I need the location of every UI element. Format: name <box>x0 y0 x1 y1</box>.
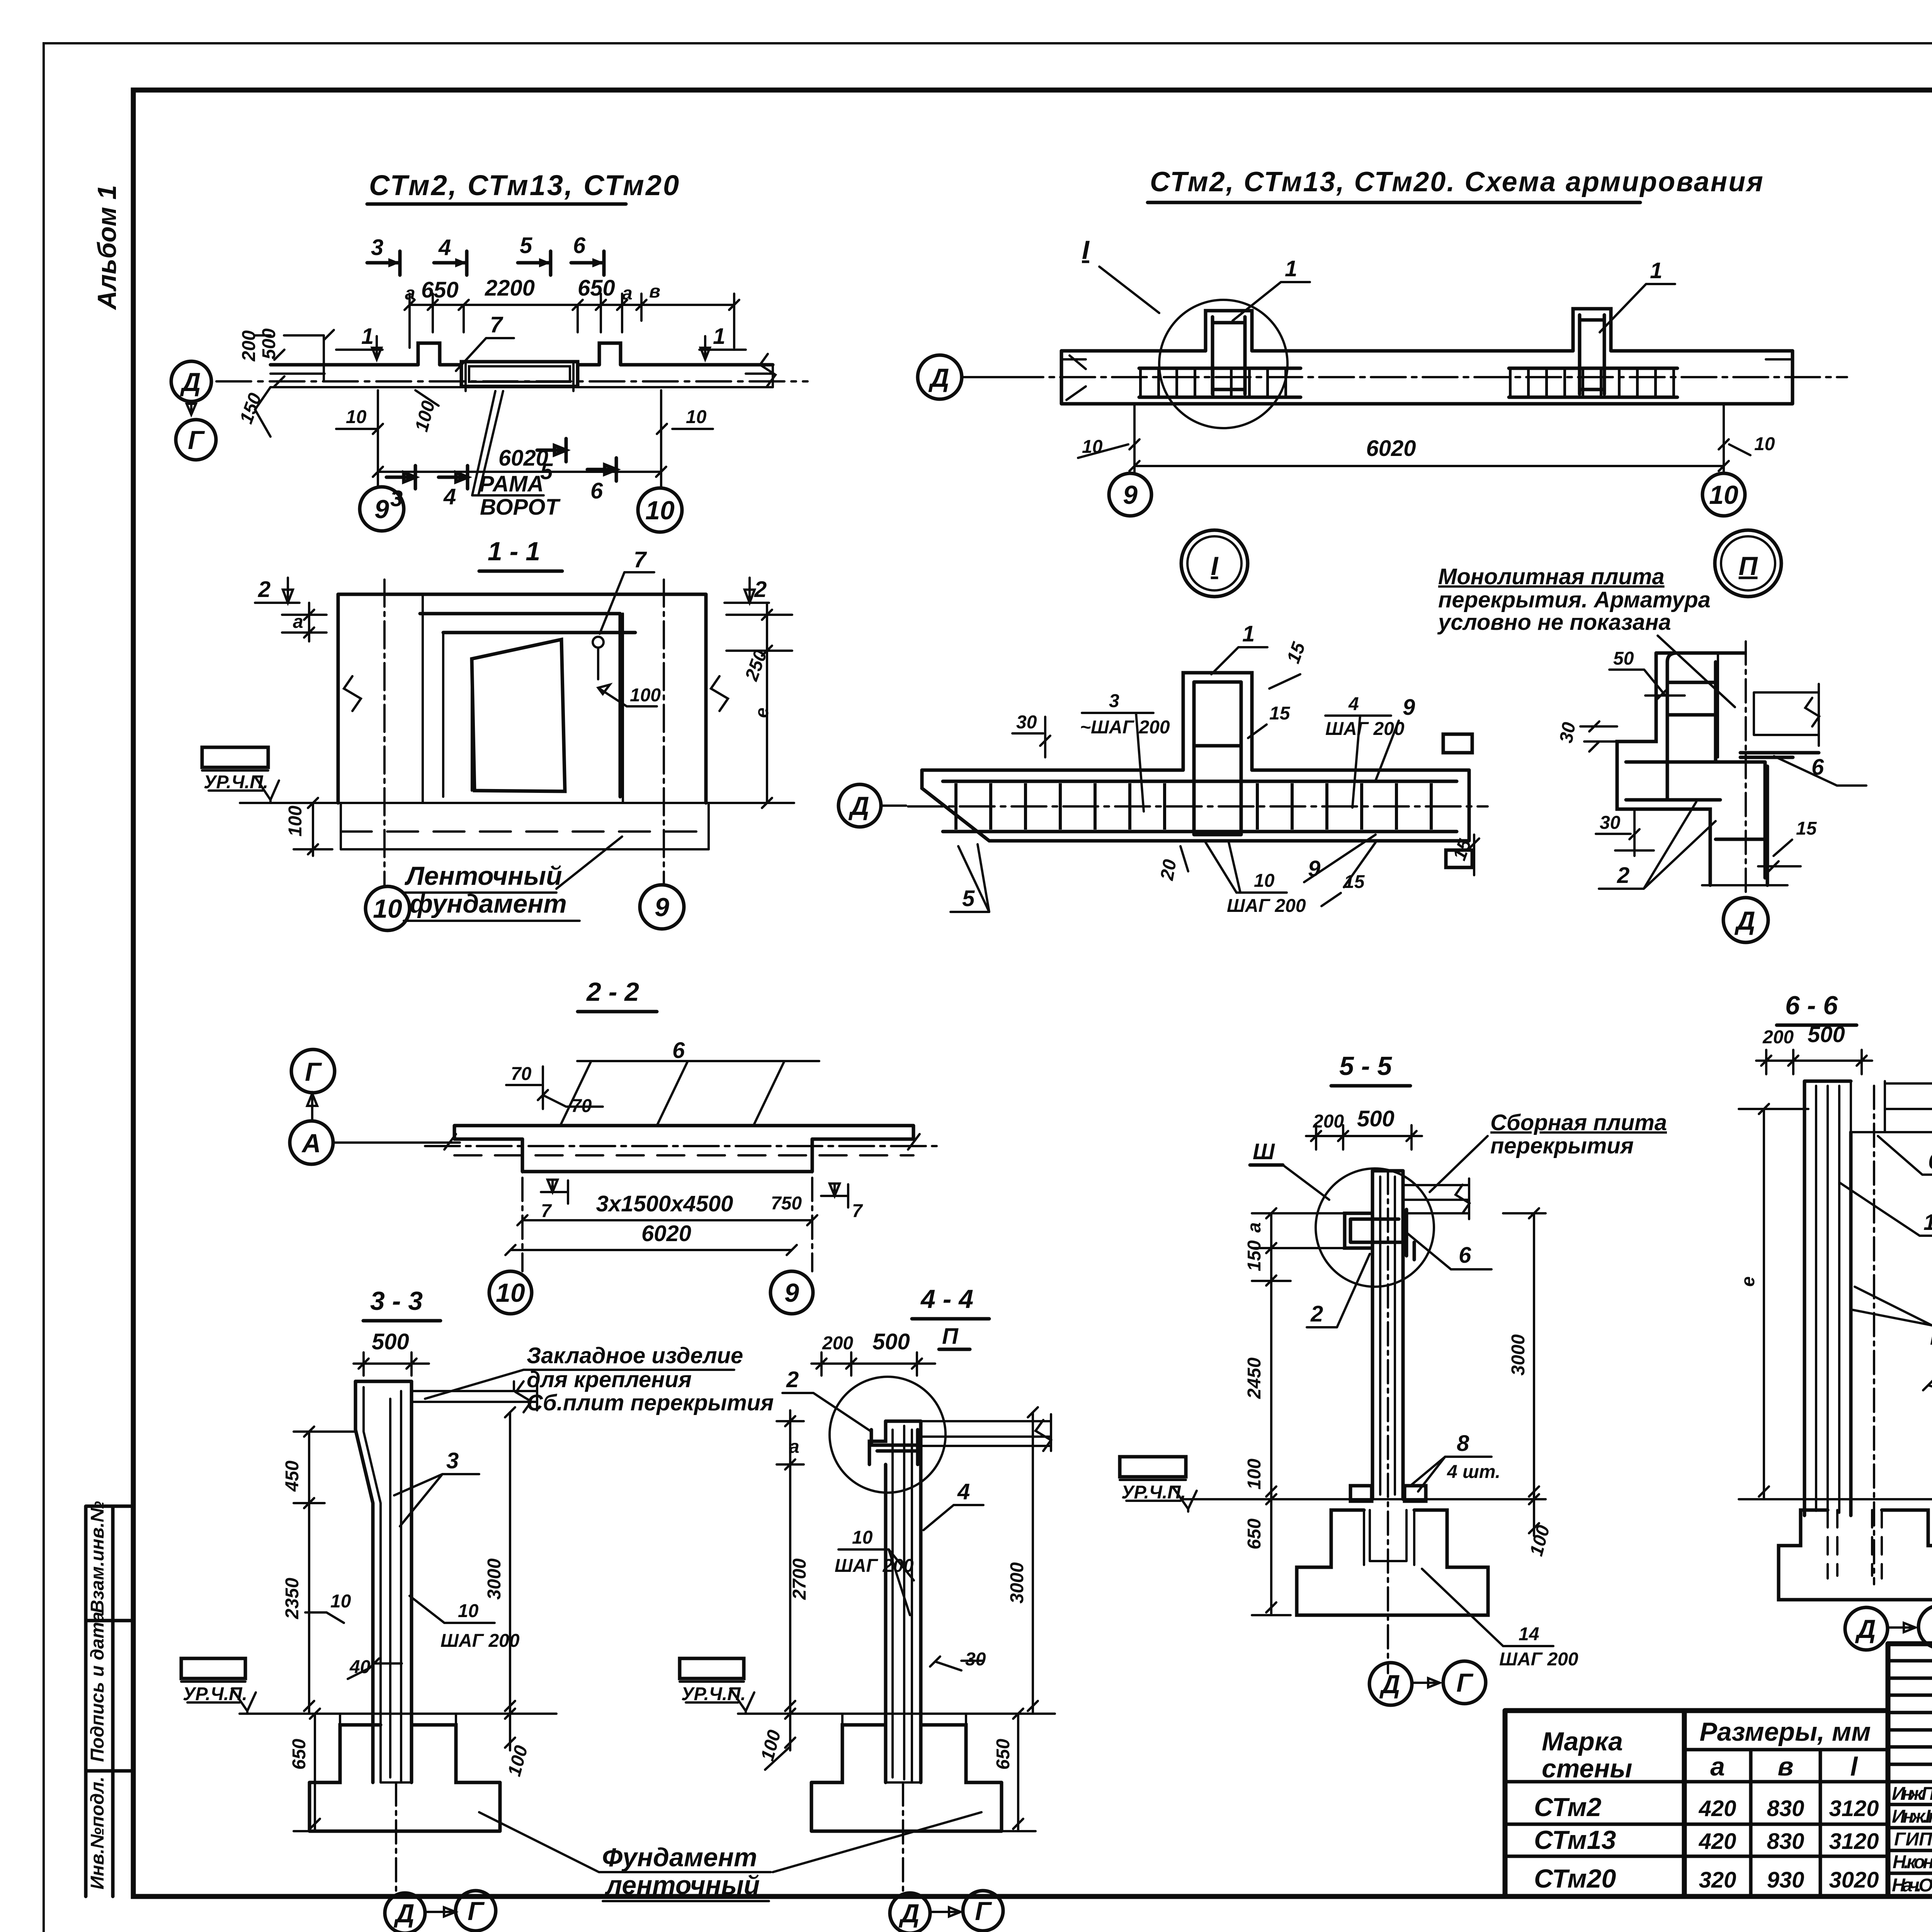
svg-text:100: 100 <box>1244 1459 1265 1490</box>
svg-text:10: 10 <box>496 1278 525 1308</box>
svg-text:3: 3 <box>1109 691 1119 711</box>
svg-text:7: 7 <box>634 547 647 572</box>
rebar corner in detail <box>871 1430 918 1464</box>
svg-text:4 - 4: 4 - 4 <box>920 1284 973 1314</box>
svg-text:10: 10 <box>1709 480 1738 510</box>
axis circle Д <box>918 355 962 399</box>
svg-text:Закладное изделие: Закладное изделие <box>527 1343 743 1368</box>
section mark 1 right <box>699 336 746 359</box>
svg-text:Взам.инв.№: Взам.инв.№ <box>87 1501 108 1613</box>
svg-text:10: 10 <box>645 496 675 525</box>
svg-text:3000: 3000 <box>1007 1562 1027 1604</box>
svg-text:СТм2: СТм2 <box>1534 1793 1602 1822</box>
УР.Ч.П. box and label <box>202 747 268 767</box>
plan axis line <box>216 380 808 383</box>
lower section marks 3 4 5 6 <box>386 466 415 489</box>
svg-text:Марка: Марка <box>1542 1727 1623 1756</box>
ground line <box>1182 1498 1546 1500</box>
svg-text:е: е <box>752 707 772 718</box>
svg-text:20: 20 <box>1156 858 1180 882</box>
foundation steps <box>811 1725 1002 1782</box>
svg-text:4: 4 <box>1348 694 1359 714</box>
svg-text:100: 100 <box>285 806 306 837</box>
top-left step detail <box>1345 1213 1372 1248</box>
concrete outline <box>922 769 1469 772</box>
axis circles Д Г <box>395 1782 397 1893</box>
svg-text:а: а <box>1710 1752 1725 1781</box>
УР.Ч.П. <box>680 1658 744 1679</box>
svg-text:5: 5 <box>520 233 532 258</box>
svg-text:Д: Д <box>1734 906 1755 935</box>
svg-text:Д: Д <box>1855 1614 1876 1644</box>
svg-text:15: 15 <box>1269 703 1291 724</box>
main title stamp <box>1888 1644 1932 1932</box>
svg-text:4: 4 <box>443 484 456 509</box>
pilaster 2 stem <box>1573 309 1611 351</box>
svg-text:30: 30 <box>1556 721 1580 745</box>
svg-text:650: 650 <box>289 1739 310 1770</box>
circle 9 <box>770 1271 813 1314</box>
svg-text:Г: Г <box>188 425 205 455</box>
svg-text:3х1500х4500: 3х1500х4500 <box>596 1191 733 1216</box>
svg-text:5 - 5: 5 - 5 <box>1339 1051 1392 1081</box>
svg-text:СТм2, СТм13, СТм20: СТм2, СТм13, СТм20 <box>369 169 680 201</box>
svg-text:200: 200 <box>1313 1111 1344 1132</box>
svg-text:500: 500 <box>872 1329 910 1354</box>
svg-text:4: 4 <box>438 235 451 260</box>
ground line <box>738 1713 1055 1715</box>
svg-text:420: 420 <box>1699 1796 1736 1821</box>
ground line <box>1762 1498 1932 1500</box>
big circled I <box>1181 530 1248 597</box>
svg-text:7: 7 <box>541 1201 552 1221</box>
axis dash-dot through band <box>425 1145 939 1147</box>
svg-text:перекрытия. Арматура: перекрытия. Арматура <box>1438 587 1711 612</box>
svg-text:1: 1 <box>1285 256 1297 281</box>
svg-text:10: 10 <box>373 894 402 923</box>
svg-text:е: е <box>1738 1276 1759 1287</box>
svg-text:Г: Г <box>975 1896 992 1926</box>
svg-text:650: 650 <box>993 1739 1014 1770</box>
марка стены table <box>1505 1711 1888 1896</box>
svg-text:10: 10 <box>1254 871 1275 891</box>
svg-text:200: 200 <box>822 1333 853 1354</box>
svg-text:100: 100 <box>630 685 661 706</box>
ground line <box>240 802 794 804</box>
anchor plates at base <box>1350 1486 1372 1501</box>
svg-text:830: 830 <box>1767 1796 1804 1821</box>
УР.Ч.П. <box>1120 1457 1186 1477</box>
circle 10 <box>489 1271 532 1314</box>
rebar L bars <box>1626 662 1765 878</box>
top section marks 3 4 5 6 <box>367 251 604 275</box>
svg-text:Нач.ОТЭП: Нач.ОТЭП <box>1892 1875 1932 1896</box>
svg-text:6020: 6020 <box>498 446 548 471</box>
svg-text:5: 5 <box>962 886 975 911</box>
svg-text:500: 500 <box>259 328 279 359</box>
svg-text:450: 450 <box>282 1461 303 1492</box>
axis circles <box>1873 1086 1875 1584</box>
column circle 10 <box>638 488 682 532</box>
svg-text:3000: 3000 <box>484 1558 505 1600</box>
foundation steps <box>310 1725 500 1782</box>
svg-text:10: 10 <box>686 407 707 427</box>
svg-text:2 - 2: 2 - 2 <box>586 977 639 1007</box>
rebar horizontal chords <box>943 781 1457 832</box>
circle 10 <box>366 886 410 930</box>
plan wall band <box>270 363 773 367</box>
svg-text:2200: 2200 <box>485 276 535 301</box>
wall band outline <box>1061 349 1793 353</box>
svg-text:420: 420 <box>1699 1829 1736 1854</box>
section mark 1 left <box>336 336 383 359</box>
УР.Ч.П. <box>181 1658 245 1679</box>
svg-text:3000: 3000 <box>1508 1334 1529 1376</box>
svg-text:ШАГ 200: ШАГ 200 <box>1930 1328 1932 1349</box>
svg-text:Г: Г <box>468 1896 485 1926</box>
pilaster left <box>418 343 440 365</box>
axis circle А <box>290 1121 333 1164</box>
axis circles <box>1387 1171 1389 1673</box>
svg-text:30: 30 <box>1600 813 1621 833</box>
column circle 9 <box>360 487 404 531</box>
svg-text:СТм2, СТм13, СТм20. Схема арми: СТм2, СТм13, СТм20. Схема армирования <box>1150 167 1764 197</box>
svg-text:320: 320 <box>1699 1867 1736 1893</box>
section 2 marks top <box>255 578 299 603</box>
wall column <box>1804 1081 1851 1515</box>
svg-text:Альбом 1: Альбом 1 <box>92 185 122 310</box>
svg-text:500: 500 <box>1808 1022 1845 1047</box>
svg-text:П: П <box>942 1324 959 1349</box>
svg-text:2: 2 <box>754 577 767 602</box>
svg-text:4: 4 <box>957 1479 970 1504</box>
axis dash-dot <box>1009 376 1847 378</box>
foundation <box>1297 1510 1488 1615</box>
svg-text:РАМА: РАМА <box>479 471 544 497</box>
svg-text:2: 2 <box>1617 863 1629 888</box>
svg-text:ШАГ 200: ШАГ 200 <box>1227 896 1306 916</box>
svg-text:ВОРОТ: ВОРОТ <box>480 495 561 520</box>
circle 9 <box>640 885 684 929</box>
svg-text:Д: Д <box>898 1899 919 1928</box>
closure plates right <box>1443 734 1472 753</box>
svg-text:стены: стены <box>1542 1754 1632 1783</box>
svg-text:500: 500 <box>372 1329 409 1354</box>
slab right top <box>1885 1078 1932 1138</box>
svg-text:а: а <box>1244 1222 1265 1233</box>
axis circles Д Г <box>902 1782 904 1893</box>
svg-text:Г: Г <box>305 1057 322 1087</box>
svg-text:3020: 3020 <box>1829 1867 1879 1893</box>
svg-text:3: 3 <box>371 235 383 260</box>
pilaster right <box>599 343 621 365</box>
svg-text:10: 10 <box>346 407 367 427</box>
svg-text:7: 7 <box>852 1201 863 1221</box>
wall elevation outline <box>338 593 706 596</box>
svg-text:10: 10 <box>852 1527 873 1548</box>
foundation band below <box>341 803 709 849</box>
svg-text:200: 200 <box>1762 1027 1794 1048</box>
svg-text:6: 6 <box>1459 1243 1471 1268</box>
svg-text:650: 650 <box>1244 1519 1265 1549</box>
big circled II <box>1715 530 1781 597</box>
axis dash-dot verticals <box>383 580 386 885</box>
svg-text:1: 1 <box>1242 621 1255 646</box>
svg-text:1: 1 <box>1650 258 1662 283</box>
svg-text:Монолитная плита: Монолитная плита <box>1438 564 1665 589</box>
svg-text:930: 930 <box>1767 1867 1804 1893</box>
door opening reveal <box>420 614 635 797</box>
arrow А to Г <box>307 1094 317 1121</box>
rebar cage right <box>1509 368 1677 397</box>
svg-text:500: 500 <box>1357 1106 1395 1131</box>
svg-text:650: 650 <box>578 276 615 301</box>
svg-text:Фундамент: Фундамент <box>602 1843 757 1872</box>
wall column <box>886 1420 921 1423</box>
svg-text:Сб.плит перекрытия: Сб.плит перекрытия <box>527 1390 774 1415</box>
door leaf <box>472 639 565 791</box>
svg-text:650: 650 <box>421 277 459 303</box>
svg-text:~ШАГ 200: ~ШАГ 200 <box>1080 717 1170 738</box>
svg-text:10: 10 <box>330 1591 351 1612</box>
svg-text:Д: Д <box>393 1899 414 1928</box>
svg-text:П: П <box>1739 551 1759 581</box>
concrete outline <box>1656 651 1745 655</box>
svg-text:1 - 1: 1 - 1 <box>488 537 540 566</box>
break marks left/right <box>344 676 361 711</box>
stirrups vertical dashes <box>954 783 1179 830</box>
svg-text:150: 150 <box>1244 1240 1265 1271</box>
svg-text:Ш: Ш <box>1253 1139 1275 1164</box>
svg-text:30: 30 <box>1016 712 1037 733</box>
svg-text:2: 2 <box>786 1367 799 1392</box>
svg-text:Ленточный: Ленточный <box>404 861 562 891</box>
svg-text:А: А <box>301 1129 321 1158</box>
rebar cage left <box>1139 368 1301 397</box>
axis circle Г <box>291 1049 335 1093</box>
svg-text:15: 15 <box>1796 818 1817 839</box>
slab to right <box>921 1414 1051 1451</box>
slab right <box>1754 684 1819 746</box>
svg-text:750: 750 <box>771 1193 802 1214</box>
svg-text:Размеры, мм: Размеры, мм <box>1699 1717 1871 1747</box>
axis dash-dot through band <box>908 805 1488 808</box>
svg-text:в: в <box>1777 1752 1793 1781</box>
svg-text:9: 9 <box>374 495 389 524</box>
svg-text:3 - 3: 3 - 3 <box>370 1286 423 1316</box>
svg-text:2: 2 <box>258 577 270 602</box>
svg-text:3: 3 <box>446 1448 459 1473</box>
svg-text:І: І <box>1082 235 1090 265</box>
svg-text:7: 7 <box>490 312 503 337</box>
svg-text:6: 6 <box>1928 1149 1932 1174</box>
detail circle <box>1316 1168 1434 1287</box>
svg-text:Д: Д <box>848 791 869 821</box>
svg-text:Инж.Iкат.: Инж.Iкат. <box>1892 1806 1932 1827</box>
svg-text:50: 50 <box>1613 648 1634 669</box>
gate frame (рама ворот) <box>461 362 578 386</box>
svg-text:в: в <box>649 281 660 302</box>
svg-text:2: 2 <box>1310 1301 1323 1327</box>
pilaster 1 stem <box>1206 311 1252 351</box>
svg-text:Н.контр.: Н.контр. <box>1893 1852 1932 1872</box>
strip band <box>454 1126 913 1139</box>
axis circle Д of detail I <box>838 784 881 827</box>
svg-text:Г: Г <box>1456 1668 1474 1697</box>
circle 9 <box>1109 473 1151 516</box>
svg-text:Инж.Пкат.: Инж.Пкат. <box>1892 1784 1932 1804</box>
svg-text:Сборная плита: Сборная плита <box>1490 1110 1667 1135</box>
axis circle Д <box>171 361 211 401</box>
svg-text:1: 1 <box>1923 1210 1932 1235</box>
svg-text:8: 8 <box>1457 1431 1469 1456</box>
svg-text:Подпись и дата: Подпись и дата <box>87 1612 108 1762</box>
svg-text:Д: Д <box>1379 1670 1400 1699</box>
svg-text:4 шт.: 4 шт. <box>1447 1462 1500 1482</box>
svg-text:10: 10 <box>458 1601 479 1621</box>
svg-text:l: l <box>1850 1752 1859 1781</box>
left flared end <box>1066 355 1086 400</box>
left margin stamp cells <box>86 1501 133 1896</box>
top slab plate right <box>412 1381 537 1410</box>
svg-text:перекрытия: перекрытия <box>1490 1133 1634 1158</box>
hatch to label 6 <box>577 1060 819 1062</box>
foundation <box>1779 1510 1932 1600</box>
section 7 marks <box>541 1180 568 1204</box>
ground line <box>240 1713 556 1715</box>
svg-text:1: 1 <box>713 324 725 349</box>
svg-text:6: 6 <box>590 478 603 503</box>
svg-text:Д: Д <box>180 367 201 397</box>
svg-text:условно не показана: условно не показана <box>1437 610 1671 635</box>
wall column outline <box>355 1380 412 1383</box>
svg-text:І: І <box>1211 551 1219 581</box>
svg-text:ШАГ 200: ШАГ 200 <box>440 1631 520 1651</box>
svg-text:40: 40 <box>349 1657 371 1677</box>
svg-text:14: 14 <box>1519 1624 1539 1645</box>
svg-text:1: 1 <box>361 324 374 349</box>
svg-text:70: 70 <box>511 1064 532 1084</box>
column <box>1372 1171 1403 1499</box>
svg-text:6: 6 <box>573 233 586 258</box>
svg-text:ленточный: ленточный <box>605 1871 760 1900</box>
svg-text:Д: Д <box>928 363 949 393</box>
svg-text:СТм20: СТм20 <box>1534 1864 1616 1893</box>
dash-dot verticals to circles <box>522 1140 812 1271</box>
svg-text:6020: 6020 <box>641 1221 691 1246</box>
svg-text:3120: 3120 <box>1829 1796 1879 1821</box>
svg-text:ГИП: ГИП <box>1894 1829 1932 1850</box>
svg-text:830: 830 <box>1767 1829 1804 1854</box>
svg-text:6: 6 <box>672 1038 685 1063</box>
circle 10 <box>1702 473 1745 516</box>
svg-text:9: 9 <box>1123 480 1138 510</box>
axis dash-dot + circle Д <box>1745 641 1747 896</box>
svg-text:10: 10 <box>1754 434 1775 454</box>
svg-text:СТм13: СТм13 <box>1534 1825 1616 1855</box>
svg-text:ШАГ 200: ШАГ 200 <box>1499 1649 1578 1670</box>
detail circle II <box>830 1377 946 1493</box>
stub rebar cage <box>1194 682 1241 835</box>
svg-text:2700: 2700 <box>789 1558 810 1600</box>
svg-text:30: 30 <box>965 1649 986 1670</box>
slab right <box>1403 1179 1469 1219</box>
svg-text:6 - 6: 6 - 6 <box>1785 991 1838 1020</box>
svg-text:3120: 3120 <box>1829 1829 1879 1854</box>
svg-text:2350: 2350 <box>282 1578 303 1619</box>
svg-text:6020: 6020 <box>1366 436 1416 461</box>
svg-text:2450: 2450 <box>1244 1357 1265 1399</box>
svg-text:9: 9 <box>784 1278 799 1308</box>
svg-text:9: 9 <box>1403 695 1415 720</box>
axis circle Г <box>176 420 216 460</box>
svg-text:9: 9 <box>655 893 669 922</box>
detail circle I <box>1159 300 1287 428</box>
svg-text:Инв.№подл.: Инв.№подл. <box>87 1777 108 1889</box>
